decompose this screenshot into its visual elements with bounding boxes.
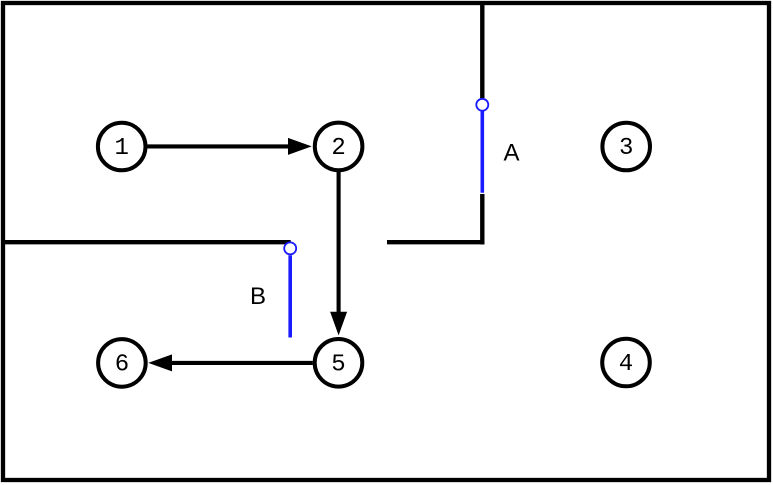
edge 2-5 <box>330 171 347 336</box>
svg-text:B: B <box>250 283 266 310</box>
svg-text:A: A <box>504 139 520 166</box>
node 1 <box>98 123 146 171</box>
node 5 <box>315 339 363 387</box>
svg-text:5: 5 <box>331 351 345 378</box>
door A hinge <box>476 99 488 111</box>
svg-text:1: 1 <box>114 135 128 162</box>
wall: vertical wall below door A <box>480 194 484 244</box>
node 2 <box>315 123 363 171</box>
wall: left horizontal wall <box>1 240 291 244</box>
svg-text:6: 6 <box>115 351 129 378</box>
door A segment <box>480 111 484 193</box>
svg-text:4: 4 <box>619 351 633 378</box>
edge 5-6 <box>148 354 312 371</box>
node 3 <box>602 123 650 171</box>
edge 1-2 <box>148 138 312 155</box>
door B hinge <box>284 242 296 254</box>
svg-text:3: 3 <box>619 135 633 162</box>
door B segment <box>288 255 292 337</box>
svg-text:2: 2 <box>331 135 345 162</box>
wall: short right horizontal wall <box>387 240 485 244</box>
node 6 <box>98 339 146 387</box>
node 4 <box>602 339 650 387</box>
wall: upper vertical wall <box>480 1 484 98</box>
